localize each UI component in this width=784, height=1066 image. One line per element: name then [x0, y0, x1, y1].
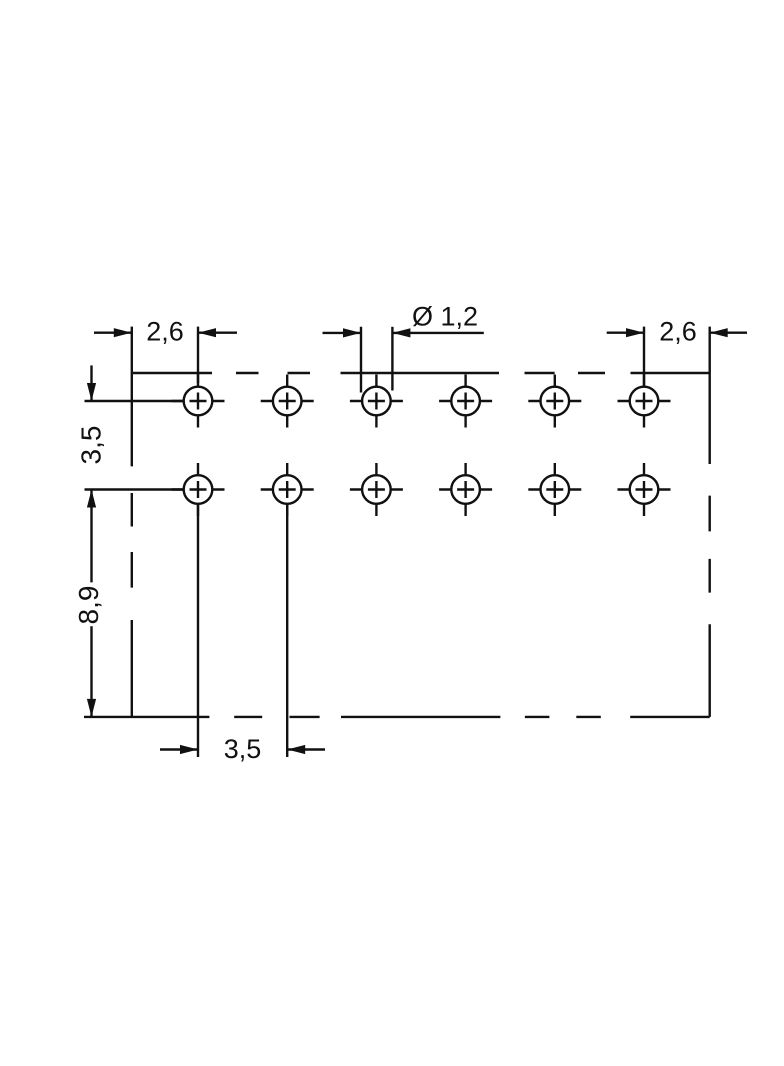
svg-text:3,5: 3,5 — [76, 426, 107, 465]
svg-text:3,5: 3,5 — [224, 734, 262, 764]
hole R2C6 — [618, 463, 671, 516]
dimension 3,5 bottom: right arrow tail — [287, 748, 325, 750]
hole R2C3 — [350, 463, 403, 516]
dimension 2,6 top-left: right arrow tail — [198, 332, 237, 334]
hole R1C2 — [261, 375, 314, 428]
extension line left edge top (2,6 left) — [131, 327, 133, 373]
arrowhead right at col6 (2,6 right) — [626, 328, 644, 337]
dimension 2,6 top-right: right arrow tail — [710, 332, 747, 334]
svg-text:2,6: 2,6 — [659, 317, 697, 347]
extension line col1 top (2,6 left) — [197, 327, 199, 383]
hole R2C5 — [528, 463, 581, 516]
arrowhead down at row1 (3,5 left) — [87, 383, 96, 401]
arrowhead right at col1 bottom (3,5 bottom) — [180, 745, 198, 754]
hole R1C5 — [528, 375, 581, 428]
arrowhead left at right edge (2,6 right) — [710, 328, 728, 337]
hole R1C1 — [172, 375, 225, 428]
hole R2C1 — [172, 463, 225, 516]
outline right edge (dashed) — [709, 373, 711, 717]
arrowhead left at col2 bottom (3,5 bottom) — [287, 745, 305, 754]
hole R1C3 — [350, 375, 403, 428]
extension line row2 left (8,9) — [85, 488, 185, 490]
outline left edge (dashed) — [131, 373, 133, 717]
dimension 8,9: line lower part — [90, 626, 92, 717]
extension line dia right tangent (O 1,2) — [391, 327, 393, 391]
arrowhead down at bottom edge (8,9) — [87, 699, 96, 717]
arrowhead right at dia tangent (O 1,2) — [343, 328, 361, 337]
hole R1C4 — [439, 375, 492, 428]
extension line right edge top (2,6 right) — [709, 327, 711, 373]
extension line row1 left (3,5) — [85, 400, 185, 402]
dimension O1,2: right arrow tail — [392, 332, 483, 334]
hole R1C6 — [618, 375, 671, 428]
arrowhead left at dia tangent (O 1,2) — [392, 328, 410, 337]
arrowhead right at left edge (2,6 left) — [114, 328, 132, 337]
arrowhead left at col1 (2,6 left) — [198, 328, 216, 337]
dimension 8,9: line upper part — [90, 490, 92, 583]
extension line col6 top (2,6 right) — [643, 327, 645, 387]
outline bottom edge (dashed) — [84, 716, 710, 718]
extension line col1 down (3,5 bottom) — [197, 505, 199, 757]
svg-text:2,6: 2,6 — [146, 317, 184, 347]
hole R2C4 — [439, 463, 492, 516]
dimension 3,5 bottom: left arrow line — [160, 748, 198, 750]
dimension 3,5 left: upper arrow tail — [90, 365, 92, 401]
hole R2C2 — [261, 463, 314, 516]
dimension 2,6 top-right: left arrow line — [607, 332, 644, 334]
svg-text:Ø 1,2: Ø 1,2 — [412, 302, 478, 332]
dimension 2,6 top-left: left arrow line — [94, 332, 132, 334]
outline top edge (dashed) — [132, 372, 710, 374]
extension line col2 down (3,5 bottom) — [286, 505, 288, 757]
dimension O1,2: left arrow line — [323, 332, 362, 334]
extension line dia left tangent (O 1,2) — [360, 327, 362, 393]
svg-text:8,9: 8,9 — [73, 586, 104, 625]
arrowhead up at row2 (8,9 / 3,5 left) — [87, 490, 96, 508]
